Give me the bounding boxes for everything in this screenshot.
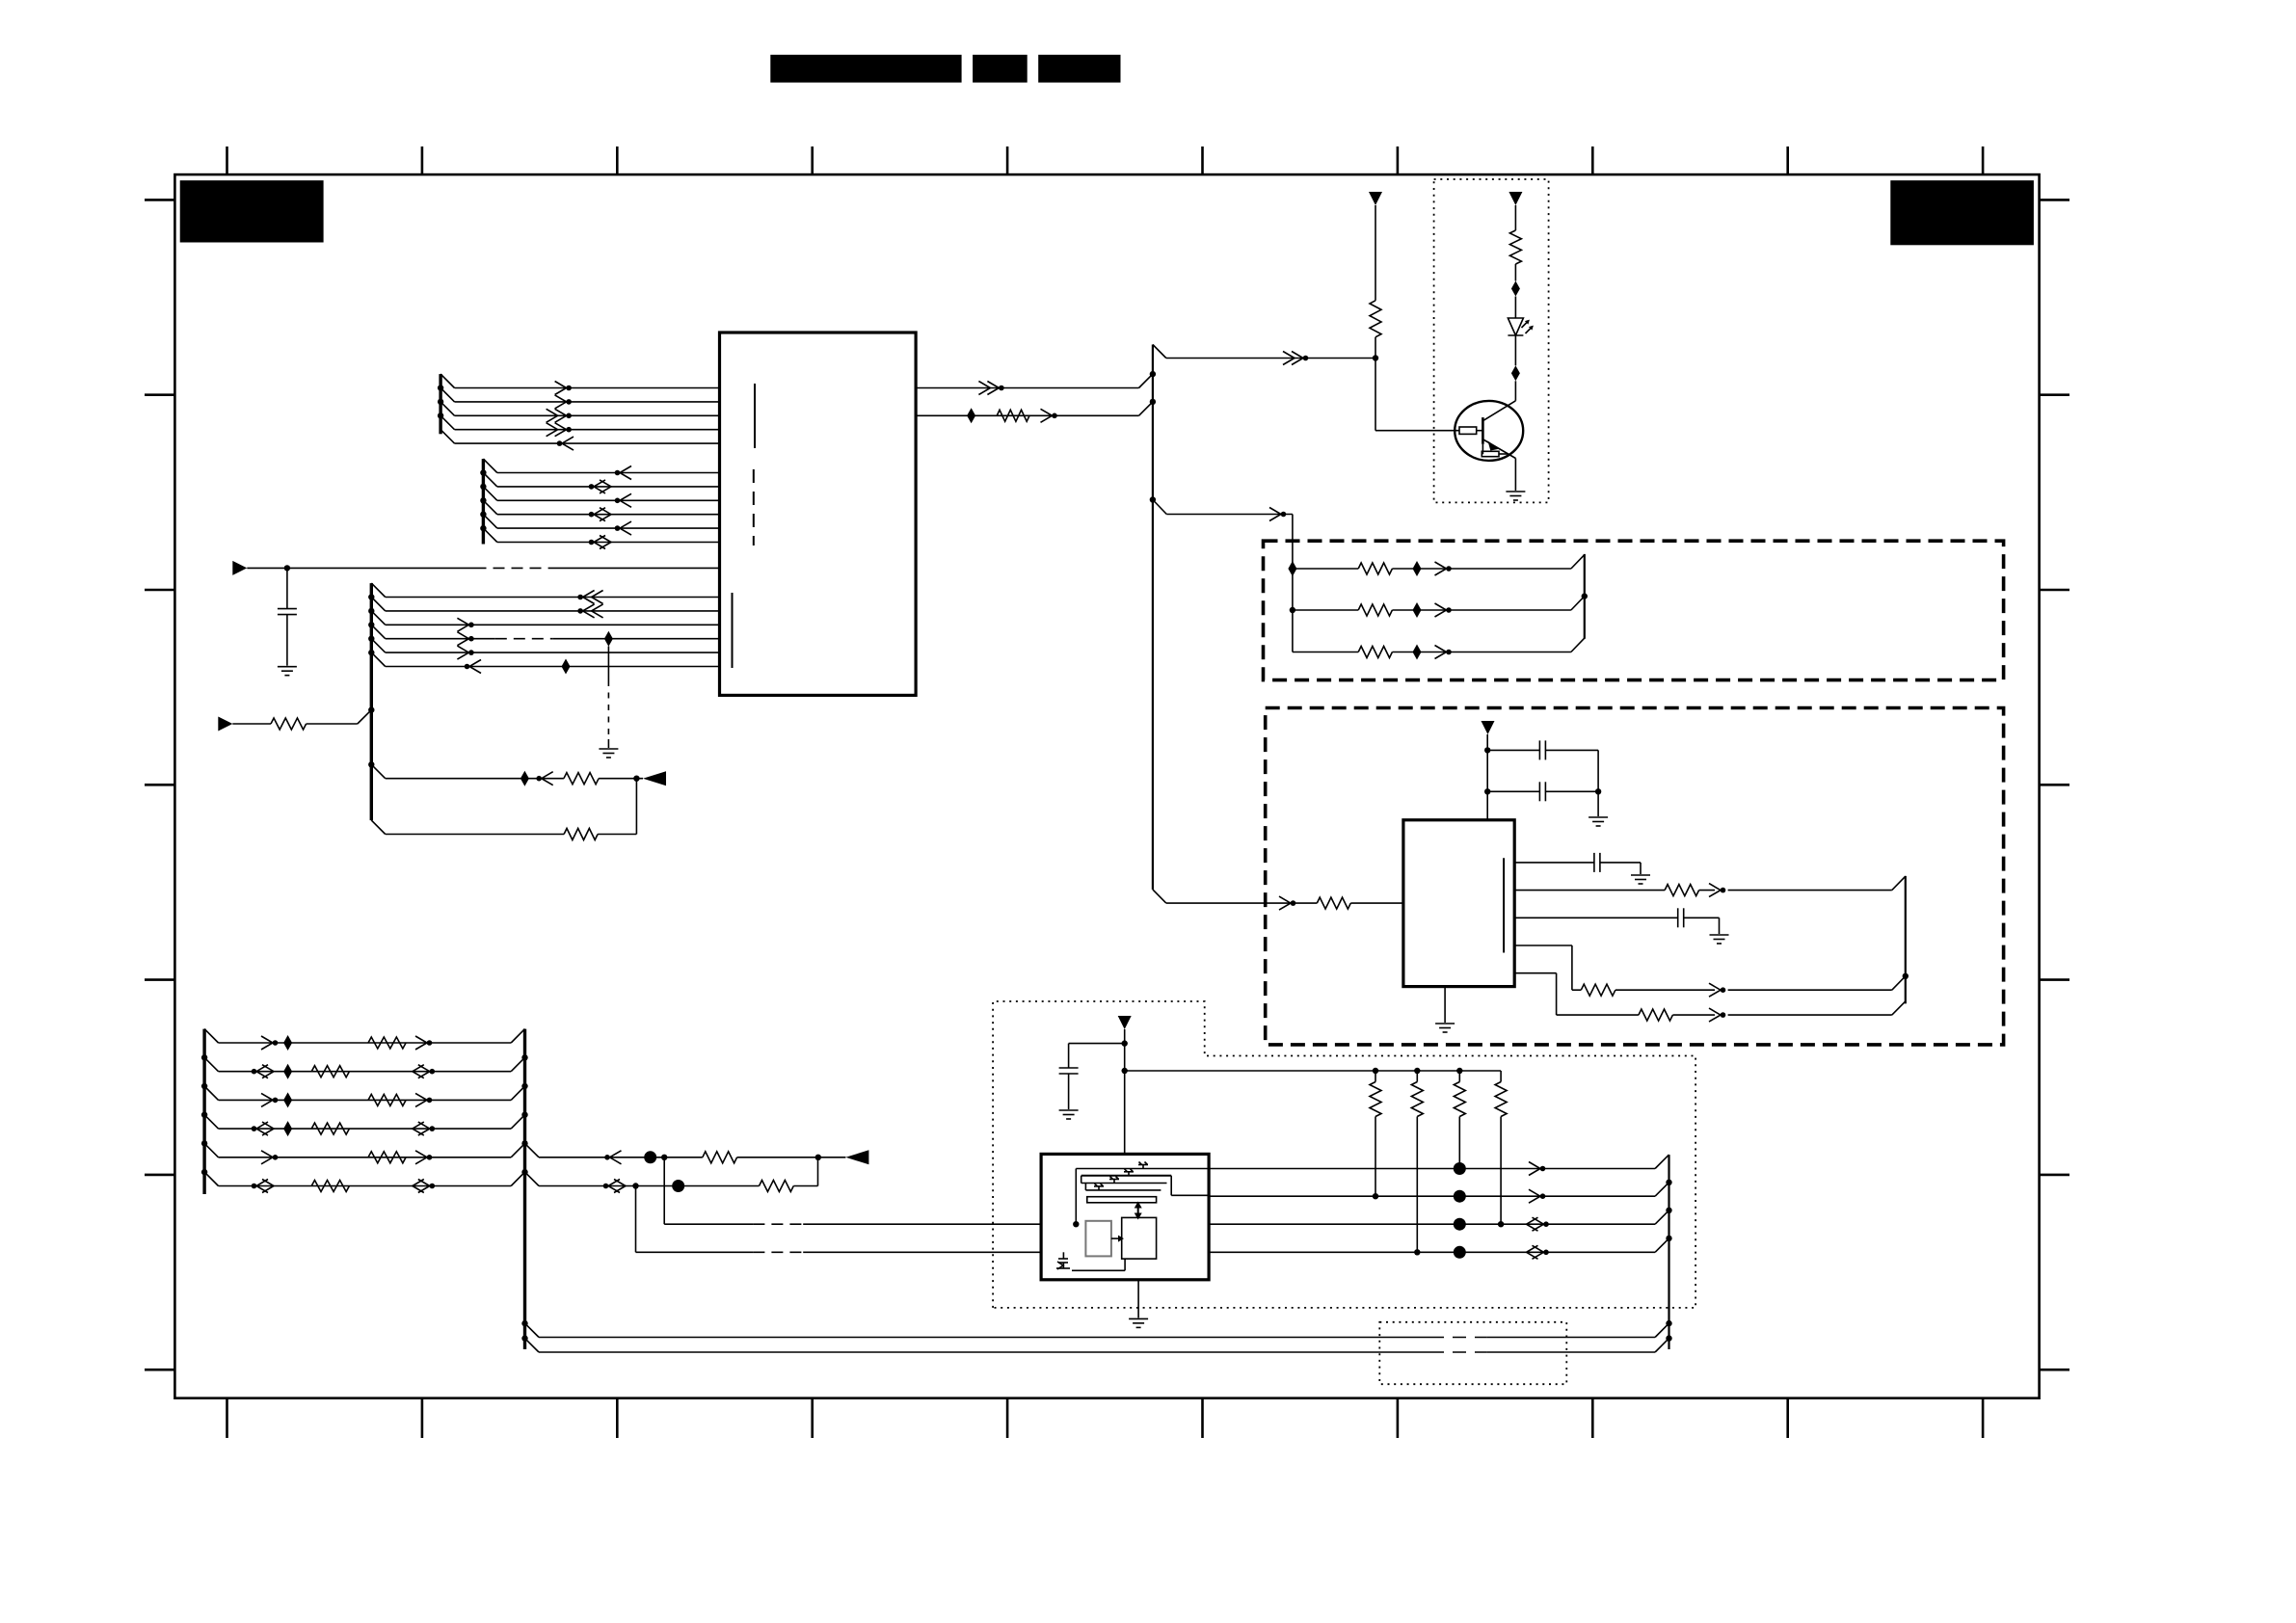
resistor R4: [1665, 885, 1699, 896]
right collector rail: [1668, 1155, 1669, 1349]
U2 pin C net: [1514, 917, 1678, 918]
resistor R3: [1317, 897, 1350, 909]
bus D rail: [202, 1029, 205, 1194]
capacitor C5: [1069, 1043, 1125, 1045]
diamond row 2: [1413, 602, 1422, 618]
wire: [1514, 264, 1516, 281]
arrow: [1709, 983, 1721, 997]
dotted enclosure DT2: [993, 1001, 1695, 1308]
trunk top bend: [1153, 345, 1166, 359]
bus D collector rail: [523, 1029, 526, 1349]
L3 marks: [1454, 1218, 1466, 1231]
resistor R9: [564, 773, 599, 785]
diamond: [1288, 561, 1296, 576]
U3 block B2: [1122, 1217, 1157, 1259]
U1 output line 2: [916, 414, 1138, 416]
U3 updown arrow: [1137, 1208, 1139, 1214]
arrow on bus B line 5: [620, 521, 631, 535]
bus D line3 symbols: [261, 1093, 273, 1106]
IC U1: [720, 333, 917, 695]
power arrow V3: [1482, 721, 1495, 734]
bus C wires: [371, 583, 385, 597]
wire: [307, 723, 358, 725]
connector arrow A4: [845, 1150, 868, 1164]
ground: [1129, 1317, 1148, 1319]
bus D line1 symbols: [261, 1036, 273, 1050]
U3 bus bar: [1087, 1197, 1157, 1203]
resistor R13: [1358, 647, 1392, 658]
U2 pin A net: [1514, 862, 1594, 864]
resistor R8: [564, 829, 598, 840]
dashed enclosure DB2: [1266, 708, 2004, 1045]
label box top-left: [180, 180, 324, 242]
bus D line4 symbols: [256, 1122, 268, 1135]
bus C rail: [370, 583, 373, 820]
bus C junctions: [368, 594, 374, 599]
frame grid ticks: [226, 146, 228, 174]
diamond: [521, 771, 529, 786]
arrow row 2: [1435, 603, 1447, 617]
line L3: [664, 1223, 753, 1225]
bus D line2 symbols: [256, 1065, 268, 1078]
arrow: [604, 1155, 610, 1160]
U2 left pin wire: [1166, 902, 1318, 904]
power arrow V1: [1369, 192, 1382, 205]
diamond row 1: [1413, 561, 1422, 576]
resistor R1: [1370, 301, 1381, 337]
resistor R17: [1500, 1071, 1502, 1082]
wire: [1514, 297, 1516, 319]
long line 1: [525, 1323, 540, 1337]
L2 marks: [1373, 1193, 1378, 1199]
wire loop: [386, 834, 564, 836]
U2 pin D net: [1514, 945, 1572, 946]
resistor R7: [271, 718, 307, 730]
U1 pin-group bar 2: [753, 469, 755, 545]
wire net X: [371, 764, 385, 778]
arrow on bus A line 1: [555, 382, 567, 395]
U3 internal wire 1: [1075, 1169, 1077, 1225]
U3 ground pin: [1137, 1280, 1139, 1318]
arrow on bus C line 3: [457, 618, 468, 631]
wire drop L6: [635, 1186, 637, 1253]
wire L5 ext: [525, 1143, 540, 1157]
ground: [599, 748, 618, 750]
pullup rail: [1125, 1070, 1501, 1072]
U2 ground pin: [1444, 987, 1446, 1023]
resistor R12: [1358, 604, 1392, 616]
bus D junctions: [201, 1054, 207, 1060]
L4 marks: [1414, 1249, 1420, 1255]
dashed stub to ground: [607, 647, 609, 681]
diamond row 3: [1413, 645, 1422, 660]
line L2 right: [1209, 1195, 1655, 1197]
wire from trunk: [1150, 496, 1156, 502]
U2 pin B net: [1514, 890, 1665, 891]
long line 2: [525, 1339, 540, 1352]
arrow on bus C line 5: [457, 646, 468, 659]
ground: [278, 666, 297, 668]
capacitor C2: [1487, 749, 1539, 751]
diamond on bus C line 6: [562, 659, 571, 675]
line L4: [636, 1251, 754, 1253]
dashed enclosure DB1: [1264, 541, 2004, 679]
arrow: [978, 382, 990, 395]
connector arrow A2: [218, 717, 232, 732]
resistor R5: [1581, 984, 1615, 996]
bus B rail: [482, 459, 485, 544]
ground: [1710, 934, 1729, 936]
resistor R18: [703, 1152, 737, 1163]
IC U2: [1403, 820, 1514, 987]
bus B junctions: [480, 469, 486, 475]
resistor R10: [997, 410, 1029, 421]
U3 clamp symbols: [1138, 1164, 1148, 1166]
wire: [1514, 335, 1516, 365]
bus D wires: [204, 1029, 218, 1043]
connector arrow A1: [232, 561, 247, 575]
resistor R15: [1416, 1071, 1418, 1082]
diamond: [1511, 281, 1520, 297]
ground: [1631, 874, 1650, 876]
connector arrow A3: [643, 771, 666, 785]
transistor Q1: [1455, 401, 1523, 461]
arrow: [1283, 352, 1295, 365]
U2 pin bar: [1503, 858, 1505, 952]
ground: [1589, 816, 1608, 818]
wire drop: [1292, 515, 1294, 652]
small dotted enclosure DT3: [1379, 1322, 1566, 1384]
wire: [1375, 337, 1376, 359]
wire collector: [1514, 381, 1516, 401]
bus A wires: [441, 374, 454, 387]
junction: [1290, 607, 1295, 613]
wire: [635, 779, 637, 835]
arrow: [1709, 884, 1721, 897]
bus B wires: [483, 459, 496, 472]
diamond on bus C line 4: [604, 631, 613, 647]
U1 pin-group bar 3: [732, 593, 734, 668]
bus A junctions: [438, 385, 443, 390]
resistor R6: [1639, 1009, 1673, 1021]
wire drop L5: [663, 1157, 665, 1224]
DB1 collector rail: [1584, 554, 1586, 639]
wire: [599, 778, 643, 780]
resistor R2: [1509, 230, 1521, 264]
U2 pin E net: [1514, 972, 1556, 974]
arrow on bus B line 4: [594, 508, 605, 521]
arrow: [608, 1180, 620, 1193]
ground: [1059, 1109, 1079, 1111]
wire: [1375, 205, 1376, 301]
dotted enclosure: [1434, 179, 1549, 502]
ground: [1506, 491, 1525, 492]
arrow on bus A line 5: [562, 437, 574, 450]
DB2 collector rail: [1905, 876, 1907, 1004]
IC U3: [1041, 1154, 1209, 1279]
wire: [1124, 1029, 1126, 1154]
arrow on bus C line 1: [592, 591, 603, 604]
wire to Q1 area: [1166, 358, 1375, 359]
capacitor C1: [286, 568, 288, 608]
arrow on bus A line 4: [547, 423, 558, 437]
LED D1: [1508, 318, 1523, 335]
wire: [1597, 750, 1599, 816]
title bar 2: [973, 55, 1028, 83]
wire L6 ext: [525, 1172, 540, 1185]
wire A2: [232, 723, 271, 725]
arrow on bus B line 1: [620, 466, 631, 480]
wire base: [1375, 359, 1376, 431]
bus D line5 symbols: [261, 1151, 273, 1164]
arrow row 1: [1435, 562, 1447, 575]
arrow on bus A line 2: [555, 395, 567, 409]
U3 internal wire 2: [1081, 1175, 1172, 1177]
arrow on bus B line 2: [594, 480, 605, 493]
ground: [1435, 1023, 1455, 1024]
L1 marks: [1454, 1162, 1466, 1175]
line L1 right: [1209, 1168, 1655, 1170]
wires DB1: [1293, 568, 1358, 570]
resistor R16: [1458, 1071, 1460, 1082]
U3 arrow B1-B2: [1111, 1237, 1118, 1239]
arrow: [1709, 1008, 1721, 1022]
power arrow V4: [1118, 1016, 1132, 1029]
resistor R19: [760, 1181, 794, 1192]
wire emitter: [1514, 459, 1516, 492]
trunk wire: [1152, 345, 1154, 890]
arrow on bus C line 2: [592, 604, 603, 618]
U1 pin-group bar 1: [754, 384, 756, 448]
arrow: [1041, 409, 1053, 422]
wire A1: [247, 567, 474, 569]
arrow on bus A line 3: [547, 409, 558, 422]
arrow: [1279, 896, 1291, 910]
border frame: [174, 174, 2039, 1398]
U3 internal wire 4: [1124, 1259, 1126, 1270]
arrow row 3: [1435, 646, 1447, 659]
arrow on bus C line 6: [469, 660, 481, 674]
diamond: [1511, 365, 1520, 381]
wire: [1514, 205, 1516, 230]
resistor R14: [1375, 1071, 1376, 1082]
arrow on bus C line 4: [457, 632, 468, 646]
U3 block B1: [1085, 1221, 1111, 1257]
arrow on bus B line 3: [620, 493, 631, 507]
power arrow V2: [1508, 192, 1522, 205]
resistor R11: [1358, 563, 1392, 574]
label box top-right: [1890, 180, 2034, 245]
U3 mosfet: [1062, 1252, 1064, 1259]
diamond: [967, 408, 975, 423]
U3 internal wire 3: [1081, 1176, 1082, 1184]
title bar 3: [1038, 55, 1120, 83]
title bar 1: [770, 55, 961, 83]
arrow: [536, 776, 542, 782]
wire: [1486, 734, 1488, 820]
bus D line6 symbols: [256, 1180, 268, 1193]
U1 output line 1: [916, 387, 1138, 389]
capacitor C3: [1487, 790, 1539, 792]
arrow: [1269, 508, 1281, 521]
arrow on bus B line 6: [594, 536, 605, 549]
bus A rail: [439, 374, 441, 434]
